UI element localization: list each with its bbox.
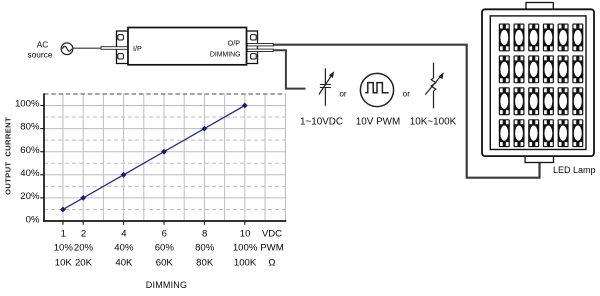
svg-text:60%: 60% bbox=[155, 243, 175, 254]
svg-text:OUTPUT CURRENT: OUTPUT CURRENT bbox=[4, 117, 13, 195]
svg-text:DIMMING: DIMMING bbox=[146, 280, 187, 290]
svg-text:80%: 80% bbox=[20, 122, 40, 133]
svg-text:100%: 100% bbox=[15, 99, 40, 110]
svg-text:80%: 80% bbox=[195, 243, 215, 254]
svg-text:20%: 20% bbox=[74, 243, 94, 254]
svg-text:40K: 40K bbox=[115, 258, 133, 269]
svg-text:DIMMING: DIMMING bbox=[210, 51, 241, 58]
svg-text:2: 2 bbox=[81, 228, 86, 239]
svg-text:AC: AC bbox=[37, 40, 49, 50]
svg-text:I/P: I/P bbox=[133, 44, 142, 53]
svg-text:10K: 10K bbox=[55, 258, 73, 269]
svg-text:PWM: PWM bbox=[260, 243, 283, 254]
svg-text:source: source bbox=[28, 50, 53, 60]
svg-text:or: or bbox=[403, 90, 411, 99]
svg-text:10%: 10% bbox=[54, 243, 74, 254]
svg-text:60%: 60% bbox=[20, 145, 40, 156]
svg-text:O/P: O/P bbox=[228, 39, 241, 48]
svg-text:1: 1 bbox=[61, 228, 66, 239]
svg-text:100K: 100K bbox=[234, 258, 257, 269]
svg-text:20K: 20K bbox=[75, 258, 93, 269]
svg-text:8: 8 bbox=[202, 228, 207, 239]
svg-text:6: 6 bbox=[162, 228, 167, 239]
svg-text:or: or bbox=[339, 90, 347, 99]
svg-text:4: 4 bbox=[121, 228, 127, 239]
svg-text:80K: 80K bbox=[196, 258, 214, 269]
svg-text:LED Lamp: LED Lamp bbox=[553, 165, 596, 175]
svg-text:1~10VDC: 1~10VDC bbox=[300, 117, 343, 128]
svg-text:10V PWM: 10V PWM bbox=[356, 117, 400, 128]
svg-text:100%: 100% bbox=[233, 243, 258, 254]
svg-text:40%: 40% bbox=[20, 168, 40, 179]
svg-text:10K~100K: 10K~100K bbox=[410, 117, 457, 128]
svg-text:10: 10 bbox=[240, 228, 251, 239]
svg-text:20%: 20% bbox=[20, 191, 40, 202]
svg-text:VDC: VDC bbox=[262, 228, 282, 239]
svg-text:40%: 40% bbox=[114, 243, 134, 254]
svg-text:0%: 0% bbox=[26, 215, 40, 226]
svg-text:60K: 60K bbox=[156, 258, 174, 269]
svg-text:Ω: Ω bbox=[268, 258, 275, 269]
